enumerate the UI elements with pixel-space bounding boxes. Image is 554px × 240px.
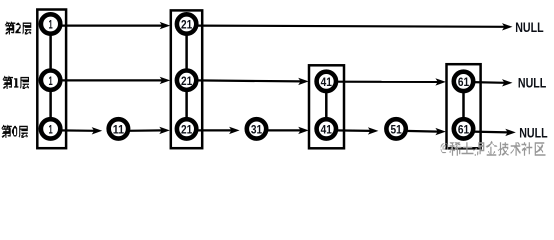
svg-text:41: 41 — [321, 123, 332, 137]
svg-text:1: 1 — [49, 74, 53, 88]
node box [21] spanning levels 2-0 — [171, 10, 202, 148]
arrow level0 61->NULL — [473, 131, 509, 134]
arrow level0 41->51 — [335, 129, 371, 132]
svg-text:NULL: NULL — [518, 75, 546, 90]
node box [41] spanning levels 1-0 — [309, 65, 344, 148]
svg-text:61: 61 — [458, 75, 469, 89]
svg-text:21: 21 — [181, 74, 192, 88]
arrow level1 21->41 — [196, 80, 302, 81]
label level 0 (第0层) — [1, 124, 28, 137]
svg-text:1: 1 — [49, 18, 53, 32]
wire level1->level0 inside box 61 — [462, 92, 465, 119]
node 11 level0 — [109, 119, 128, 138]
arrow level1 1->21 — [60, 79, 163, 81]
wire level2->level1 inside box 21 — [185, 35, 188, 70]
svg-text:11: 11 — [113, 123, 124, 137]
node 21 level2 — [177, 14, 196, 33]
node 51 level0 — [386, 119, 405, 138]
node 41 level1 — [317, 72, 336, 91]
wire level1->level0 inside box 21 — [185, 91, 188, 119]
svg-text:21: 21 — [181, 123, 192, 137]
arrow level0 1->11 — [60, 129, 95, 132]
arrow level0 11->21 — [127, 129, 162, 132]
node 1 level2 — [41, 14, 60, 33]
node 21 level0 — [177, 119, 196, 138]
svg-text:41: 41 — [321, 75, 332, 89]
node box [1] spanning levels 2-0 — [37, 10, 66, 149]
node 41 level0 — [317, 119, 336, 138]
arrow level0 51->61 — [405, 130, 438, 133]
svg-text:31: 31 — [251, 123, 262, 137]
arrow level0 21->31 — [196, 129, 232, 131]
arrow level2 1->21 — [60, 25, 163, 27]
arrow level1 41->61 — [335, 81, 438, 83]
svg-text:NULL: NULL — [515, 20, 543, 35]
wire level1->level0 inside box 41 — [325, 92, 328, 119]
node 31 level0 — [247, 119, 266, 138]
arrow level2 21->NULL — [196, 26, 505, 27]
svg-text:51: 51 — [390, 123, 401, 137]
svg-text:1: 1 — [49, 123, 53, 137]
node 61 level1 — [454, 72, 473, 91]
svg-text:61: 61 — [458, 123, 469, 137]
node 61 level0 — [454, 119, 473, 138]
arrow level0 31->41 — [266, 129, 302, 131]
node 1 level0 — [41, 119, 60, 138]
svg-text:NULL: NULL — [519, 126, 547, 141]
watermark 稀土掘金技术社区 — [450, 141, 546, 156]
label level 1 (第1层) — [2, 76, 29, 89]
watermark @ sign — [441, 143, 448, 153]
wire level1->level0 inside box 1 — [49, 91, 52, 119]
wire level2->level1 inside box 1 — [49, 35, 52, 70]
node 21 level1 — [177, 71, 196, 90]
arrow level1 61->NULL — [473, 81, 505, 84]
label level 2 (第2层) — [5, 21, 32, 34]
node 1 level1 — [41, 71, 60, 90]
svg-text:21: 21 — [181, 18, 192, 32]
node box [61] spanning levels 1-0 — [447, 64, 481, 148]
